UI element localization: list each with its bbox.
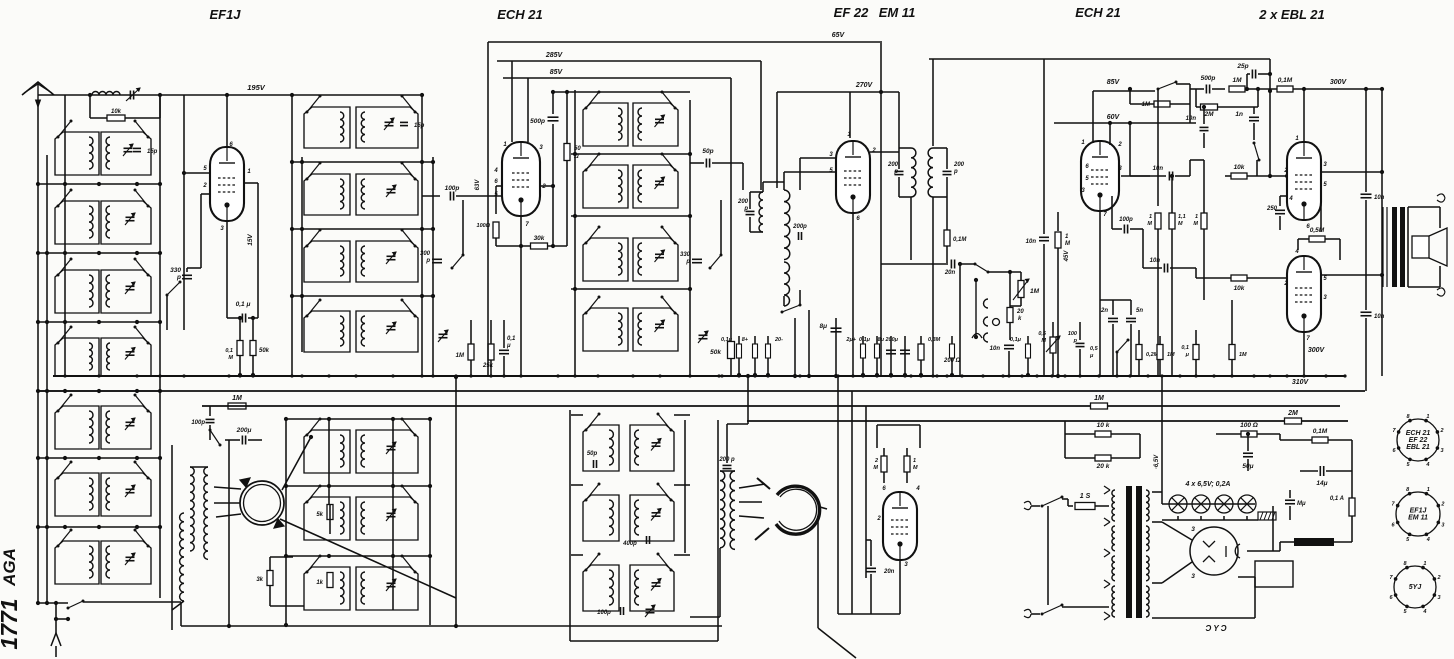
svg-text:EF 22: EF 22 [1409, 437, 1428, 444]
svg-text:μ: μ [1089, 353, 1094, 359]
ground arrow bottom [55, 603, 57, 633]
svg-text:2: 2 [1440, 502, 1444, 508]
svg-text:15p: 15p [147, 149, 158, 155]
transformer tap hooks [1104, 486, 1110, 494]
capacitor 0,1μ [738, 336, 740, 375]
wire osc box [190, 466, 208, 468]
svg-text:M: M [913, 465, 918, 471]
switch mains bottom [1031, 613, 1040, 615]
svg-text:3: 3 [1191, 573, 1195, 580]
svg-text:4: 4 [1426, 537, 1430, 543]
wire 85V rail [503, 77, 731, 79]
capacitor 8μ [890, 336, 892, 375]
wire ECH bank right rail [689, 100, 691, 375]
osc coil M5b [356, 430, 418, 473]
switch bottom band selector [38, 602, 68, 604]
capacitor 0,1μ [1027, 336, 1029, 375]
svg-text:200μ: 200μ [236, 427, 252, 434]
svg-text:20: 20 [1016, 309, 1024, 315]
osc coil M7a [304, 567, 350, 610]
IF transformer 3 coil B [928, 148, 933, 197]
coil EF22 lower [784, 262, 790, 306]
potentiometer 0.5M [1050, 337, 1056, 353]
svg-text:300: 300 [420, 251, 431, 257]
svg-text:Mμ: Mμ [1297, 501, 1306, 507]
switch bottom v5 [1117, 340, 1128, 352]
tube EBL21 V6 [1287, 142, 1321, 220]
wire ECH bottom row 3 join [571, 554, 583, 556]
svg-text:10k: 10k [1234, 164, 1245, 171]
svg-text:M: M [1041, 338, 1046, 344]
switch EF22 [782, 305, 800, 312]
pilot lamps [1162, 503, 1255, 505]
svg-text:1M: 1M [456, 353, 465, 359]
resistor 1M avc [1057, 212, 1059, 231]
svg-text:10k: 10k [111, 109, 122, 115]
tuning coil L2b [101, 201, 151, 244]
resistor 50k IF [728, 342, 735, 359]
svg-text:2: 2 [541, 184, 546, 190]
capacitor 0,1μ [876, 336, 878, 375]
wire bottom mid links [747, 376, 749, 424]
tuning coil L5b [101, 406, 151, 449]
svg-text:15p: 15p [414, 123, 425, 129]
capacitor 100p osc [209, 406, 211, 416]
osc coil M6b [356, 497, 418, 540]
capacitor 20- [767, 336, 769, 375]
svg-text:200: 200 [737, 199, 749, 205]
switch wave band [167, 282, 180, 295]
svg-text:μ: μ [506, 343, 511, 349]
resistor 20k vol [1009, 272, 1011, 308]
svg-text:20-: 20- [774, 337, 783, 343]
wire EBL1 plate to transformer [1321, 171, 1382, 173]
svg-text:5k: 5k [316, 512, 323, 518]
coil osc 2 [204, 467, 208, 559]
coil antenna trap [92, 92, 120, 95]
svg-text:14μ: 14μ [1316, 480, 1327, 487]
resistor 3k osc [269, 557, 271, 570]
switch IF [710, 255, 721, 268]
svg-text:0,1M: 0,1M [1278, 77, 1293, 84]
IF coil E7a [583, 565, 619, 611]
wire EM11 bottom [899, 560, 901, 614]
svg-text:60V: 60V [1107, 114, 1121, 121]
wire mid row 1 join [292, 161, 433, 163]
svg-text:200p: 200p [792, 224, 807, 230]
wire 85V drop [730, 78, 732, 341]
IF coil E2b [633, 165, 678, 208]
wire 195V top rail [38, 94, 420, 96]
svg-text:ECH 21: ECH 21 [1406, 430, 1431, 437]
tuning coil L5a [55, 406, 99, 449]
wire 270V drop left [776, 92, 778, 188]
mains terminal top [1024, 501, 1031, 509]
wire EF13 pin2 [201, 193, 211, 195]
wire IF3 down [932, 197, 934, 375]
resistor 20k ps [1095, 455, 1111, 461]
resistor 10k ps [1095, 431, 1111, 437]
svg-text:10 k: 10 k [1097, 422, 1110, 429]
svg-text:100p: 100p [597, 610, 611, 616]
output transformer [1382, 207, 1384, 287]
svg-text:0,1: 0,1 [1181, 345, 1189, 351]
svg-text:M: M [1178, 221, 1183, 227]
wire mid bottom row 1 join [286, 418, 432, 420]
svg-text:20 k: 20 k [1096, 463, 1110, 470]
svg-text:ECH 21: ECH 21 [497, 7, 543, 22]
svg-text:8+: 8+ [742, 337, 749, 343]
svg-text:p: p [685, 259, 690, 265]
capacitor 300p mid [432, 258, 442, 260]
resistor 30k [531, 243, 548, 249]
svg-text:1M: 1M [1232, 77, 1242, 84]
svg-text:2 x EBL 21: 2 x EBL 21 [1258, 7, 1325, 22]
svg-text:0,1μ: 0,1μ [721, 337, 733, 343]
svg-text:10n: 10n [1374, 195, 1385, 201]
svg-text:100p: 100p [1119, 217, 1133, 223]
svg-text:Ɔ Y Ɔ: Ɔ Y Ɔ [1205, 624, 1226, 633]
switch mid [452, 255, 463, 268]
wire ECH21 cathode down [520, 246, 522, 375]
wire bottom long [181, 625, 722, 627]
resistor 5k mid [327, 505, 333, 520]
resistor 50k vertical [252, 318, 254, 340]
main bus C [202, 405, 1340, 407]
coil osc 1 [190, 467, 194, 551]
wire row 1 join [38, 183, 160, 185]
resistor 1M right of mid [468, 344, 474, 360]
tuning coil L1b [101, 132, 151, 175]
tuning coil L7a [55, 541, 99, 584]
svg-text:0,1 μ: 0,1 μ [236, 301, 251, 308]
rectifier 5Y3 [1190, 527, 1238, 575]
terminal hook bottom [1437, 288, 1445, 296]
svg-text:15V: 15V [247, 234, 254, 246]
speaker [1412, 236, 1429, 258]
svg-text:45V: 45V [1064, 250, 1070, 263]
wire IF3 top [898, 92, 900, 148]
svg-text:50p: 50p [587, 451, 598, 457]
main bus A [53, 375, 1345, 377]
svg-text:8μ: 8μ [878, 337, 885, 343]
svg-text:1 S: 1 S [1080, 493, 1091, 500]
wire EF13 cathode down [226, 221, 228, 318]
svg-text:1M: 1M [1094, 395, 1104, 402]
svg-text:1: 1 [913, 458, 916, 464]
resistor 10k a [1121, 175, 1150, 177]
capacitor 330p [182, 274, 192, 276]
svg-text:50p: 50p [702, 148, 713, 155]
wire ECH row 1 join [571, 153, 690, 155]
antenna [22, 82, 54, 95]
svg-text:2: 2 [1117, 142, 1122, 148]
wire mid bottom rail x393 [392, 419, 394, 610]
svg-text:M: M [1193, 221, 1198, 227]
wire ECH21 right [540, 185, 553, 187]
svg-text:200 Ω: 200 Ω [943, 358, 961, 364]
RF coil M2a [304, 174, 350, 215]
wire v5 bottom [1099, 211, 1101, 376]
wire v5 pin2 riser [1109, 123, 1111, 145]
wire mid rail x292 [291, 95, 293, 375]
capacitor 10n vol [1004, 344, 1014, 346]
wire IF3 plate [870, 151, 899, 153]
resistor 1M bottom a [1157, 345, 1163, 360]
capacitor 20n det [881, 263, 948, 265]
wire det primary bottom [719, 548, 721, 617]
wire EF22 switch drops [794, 318, 796, 376]
tuning coil L4a [55, 338, 99, 376]
fuse 0.1A [1349, 498, 1355, 516]
drum 2 stubs [757, 478, 770, 489]
socket diagram 3 [1394, 566, 1436, 608]
wire ECH bank top line [553, 91, 690, 93]
capacitor 200μ [904, 336, 906, 375]
wire 300V rail down [1365, 89, 1367, 192]
svg-text:1: 1 [1423, 561, 1426, 567]
svg-text:EF1J: EF1J [209, 7, 241, 22]
svg-text:100Ω: 100Ω [477, 223, 491, 229]
svg-text:3: 3 [1191, 526, 1195, 533]
wire EF22 grid [783, 172, 785, 190]
svg-text:·6,5V: ·6,5V [1154, 454, 1160, 469]
svg-text:2n: 2n [1100, 308, 1108, 314]
svg-text:20n: 20n [883, 569, 895, 575]
svg-text:500p: 500p [1201, 75, 1216, 82]
wire 65V drop [880, 43, 882, 376]
volume pot 1M [1018, 281, 1024, 298]
svg-text:1,1: 1,1 [1178, 214, 1186, 220]
wire feedback drop [1269, 59, 1271, 176]
osc coil M6a [304, 497, 350, 540]
svg-text:2: 2 [1436, 575, 1440, 581]
wire row 4 join [38, 390, 160, 392]
resistor 1k mid [327, 573, 333, 588]
tuning coil L6b [101, 473, 151, 516]
socket diagram 2 [1396, 492, 1440, 536]
IF coil E3b [633, 238, 678, 281]
wire mid row 2 join [292, 228, 433, 230]
wire mid bottom rail x329 [328, 419, 330, 504]
svg-text:0,3M: 0,3M [928, 337, 941, 343]
svg-text:EM 11: EM 11 [879, 5, 916, 20]
resistor 1M vert a [1157, 89, 1159, 206]
svg-text:10n: 10n [1026, 239, 1037, 245]
wire left bank rail x184 [183, 95, 185, 330]
IF coil E2a [583, 165, 628, 208]
svg-text:330: 330 [680, 252, 691, 258]
wire x181 drop [180, 602, 182, 626]
svg-text:285V: 285V [545, 52, 564, 59]
svg-text:5YJ: 5YJ [1409, 584, 1423, 591]
wire top feedback line [929, 58, 1270, 60]
coil det transformer primary [720, 471, 725, 548]
svg-text:1M: 1M [1167, 352, 1175, 358]
svg-text:100: 100 [1068, 331, 1077, 337]
wire ECH bank bottom box [569, 410, 571, 641]
svg-text:0,1: 0,1 [225, 348, 233, 354]
svg-text:195V: 195V [247, 83, 266, 92]
tuning coil L1a [55, 132, 99, 175]
svg-text:M: M [1147, 221, 1152, 227]
IF coil E5a [583, 425, 619, 471]
svg-text:2μ+: 2μ+ [845, 337, 856, 343]
svg-text:5n: 5n [1136, 308, 1143, 314]
IF coil E1b [633, 103, 678, 146]
resistor 100ohm cathode [496, 185, 502, 187]
capacitor Mu [1285, 499, 1295, 501]
wire EF22 cathode [852, 213, 854, 375]
tuning coil L2a [55, 201, 99, 244]
capacitor 100p grid [422, 195, 440, 197]
resistor 10k antenna [89, 95, 91, 118]
svg-text:ECH 21: ECH 21 [1075, 5, 1121, 20]
resistor 1M EM11 [919, 425, 921, 448]
wire ECH21 left rail [487, 42, 489, 375]
svg-text:4 x 6,5V; 0,2A: 4 x 6,5V; 0,2A [1185, 481, 1231, 488]
svg-text:μ: μ [1185, 352, 1190, 358]
svg-text:50k: 50k [710, 349, 721, 356]
wire ECH21 plate riser [511, 61, 513, 142]
power transformer core [1126, 486, 1132, 618]
resistor 1M bus C [1091, 403, 1108, 409]
wire row 6 join [38, 526, 160, 528]
svg-text:100p: 100p [191, 420, 205, 426]
power transformer primary [1112, 490, 1115, 521]
wire mid rail x422 [421, 95, 423, 375]
wire ECH bank left rail [574, 90, 576, 375]
wire ECH bottom row 1 join [571, 414, 583, 416]
svg-text:3: 3 [1437, 595, 1440, 601]
resistor 1M bottom b [1229, 345, 1235, 360]
mains terminal bottom [1024, 609, 1031, 617]
wire ps box [1152, 491, 1162, 493]
wire mid bottom rail x430 [429, 419, 431, 625]
power transformer secondary [1146, 490, 1149, 521]
svg-text:0,1μ: 0,1μ [859, 337, 871, 343]
capacitor 20n EM11 [866, 567, 876, 569]
wire Mu drop [1272, 506, 1274, 551]
resistor 0.5M [1309, 236, 1325, 242]
svg-text:2: 2 [1439, 428, 1443, 434]
trimmer antenna trap [129, 91, 131, 100]
ballast resistor [1258, 512, 1276, 520]
tuning coil L3b [101, 270, 151, 313]
IF coil E4b [633, 308, 678, 351]
resistor 1M h [1229, 86, 1245, 92]
svg-text:4: 4 [1288, 196, 1293, 202]
coil EF22 big [784, 190, 790, 260]
svg-text:2: 2 [871, 148, 876, 154]
wire antenna down-lead [37, 100, 39, 603]
svg-text:330: 330 [170, 267, 181, 274]
svg-text:500p: 500p [530, 118, 545, 125]
capacitor 8u screen [835, 318, 837, 376]
svg-text:400p: 400p [622, 541, 637, 547]
svg-text:p: p [425, 258, 430, 264]
svg-text:1771: 1771 [0, 598, 22, 649]
wire grid v5 [1043, 59, 1045, 234]
RF coil M1a [304, 107, 350, 148]
wire mid bottom row 2 join [286, 485, 432, 487]
wire ECH21 grid riser [527, 78, 529, 142]
svg-text:M: M [873, 465, 878, 471]
svg-text:65V: 65V [832, 32, 846, 39]
svg-text:3k: 3k [256, 577, 263, 583]
svg-text:8μ: 8μ [819, 323, 827, 330]
wire EBL plate top [1303, 89, 1305, 142]
svg-text:M: M [228, 355, 233, 361]
resistor 10k b [1231, 275, 1247, 281]
coil det transformer secondary [730, 471, 735, 549]
svg-text:310V: 310V [1292, 379, 1310, 386]
resistor 0.1M v5 [1277, 86, 1293, 92]
wire mid bottom row 3 join [286, 555, 432, 557]
wire 285V rail [497, 60, 761, 62]
resistor 0.1M bottom [1193, 345, 1199, 360]
wire EF22 plate riser [849, 92, 851, 138]
svg-text:4: 4 [493, 168, 498, 174]
svg-text:EBL 21: EBL 21 [1406, 444, 1430, 451]
resistor 0,3M [920, 336, 922, 375]
switch 85V [1158, 82, 1176, 89]
svg-text:100p: 100p [445, 185, 460, 192]
resistor 0.2M [1136, 345, 1142, 360]
IF coil E6a [583, 495, 619, 541]
wire ECH row 3 join [571, 288, 690, 290]
tuning coil L7b [101, 541, 151, 584]
svg-text:20n: 20n [944, 270, 956, 276]
tube EF22 V3 [836, 141, 870, 213]
wire EF13 pin1 [243, 182, 258, 184]
svg-text:4: 4 [915, 486, 920, 492]
IF coil E5b [630, 425, 674, 471]
wire EF22 screen [800, 157, 836, 159]
svg-text:1M: 1M [1030, 288, 1040, 295]
wire EM11 rails [837, 376, 839, 614]
svg-text:4: 4 [1425, 462, 1429, 468]
resistor 2M bus D [1285, 418, 1302, 424]
svg-text:p: p [953, 169, 958, 175]
wire 285V drop [760, 61, 762, 190]
resistor 1M osc [228, 403, 246, 409]
svg-text:0,1 A: 0,1 A [1330, 496, 1344, 502]
wire rectifier leads [1162, 522, 1192, 540]
svg-text:2: 2 [1283, 281, 1288, 287]
main bus B [38, 390, 1365, 392]
wire x229 [228, 440, 230, 626]
capacitor 8+ [754, 336, 756, 375]
RF coil M3b [356, 241, 418, 282]
svg-text:2: 2 [874, 458, 878, 464]
svg-text:1M: 1M [232, 395, 242, 402]
main bus D [747, 420, 1348, 422]
wire ECH bank bottom box inner [684, 420, 686, 553]
wire left rail 2 [46, 155, 48, 603]
resistor 1M v5 [1154, 101, 1170, 107]
capacitor 10n out b [1361, 311, 1372, 313]
wire v5 pin1 riser [1092, 91, 1094, 143]
RF coil M3a [304, 241, 350, 282]
tube ECH21 V5 [1081, 141, 1119, 211]
IF coil E7b [630, 565, 674, 611]
svg-text:1n: 1n [1235, 111, 1243, 118]
wire EBL2 bottom [1303, 332, 1305, 376]
svg-text:3: 3 [1440, 448, 1443, 454]
wire row 2 join [38, 252, 160, 254]
svg-text:EF1J: EF1J [1410, 508, 1428, 515]
